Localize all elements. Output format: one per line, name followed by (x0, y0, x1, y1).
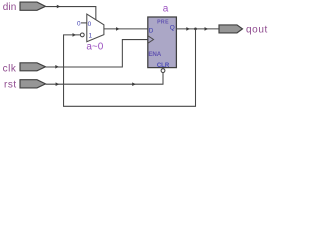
mux a~0 body (87, 14, 104, 42)
svg-text:din: din (3, 2, 17, 13)
wire mux output to D (104, 28, 148, 30)
port qout (219, 25, 243, 33)
flipflop clock triangle (148, 36, 153, 43)
wire clk to flipflop clock pin (46, 40, 148, 67)
flipflop a body (148, 17, 177, 68)
svg-text:clk: clk (3, 63, 17, 74)
junction dot on Q wire (194, 28, 197, 31)
arrow on clk wire (55, 65, 59, 69)
arrow on din wire (57, 5, 61, 9)
svg-text:a~0: a~0 (86, 42, 103, 53)
svg-text:PRE: PRE (157, 20, 169, 26)
feedback wire Q to mux input 1 (64, 29, 196, 106)
arrow on rst wire near flipflop (132, 82, 136, 86)
svg-text:0: 0 (77, 21, 81, 28)
port din (20, 2, 46, 10)
inverter bubble on CLR input (161, 69, 165, 73)
svg-text:ENA: ENA (148, 51, 161, 58)
svg-text:0: 0 (88, 21, 92, 28)
port clk (20, 63, 46, 71)
wire rst to CLR bubble (46, 73, 164, 84)
arrow on feedback wire into bubble (73, 33, 77, 37)
svg-text:CLR: CLR (157, 63, 170, 69)
svg-text:a: a (163, 3, 169, 14)
arrow on Q wire (186, 27, 190, 31)
svg-text:rst: rst (4, 79, 17, 90)
arrow on rst wire near port (56, 82, 60, 86)
svg-text:D: D (149, 27, 154, 34)
arrow on mux output wire (116, 27, 120, 31)
svg-text:Q: Q (170, 24, 175, 31)
svg-text:qout: qout (246, 24, 268, 35)
wire Q to qout port (176, 28, 219, 30)
port rst (20, 80, 46, 88)
arrow on Q wire after junction (205, 27, 209, 31)
wire din to mux select (46, 7, 96, 20)
svg-text:1: 1 (89, 32, 93, 39)
stub wire constant to mux (81, 22, 87, 24)
inverter bubble on mux input 1 (80, 33, 84, 37)
